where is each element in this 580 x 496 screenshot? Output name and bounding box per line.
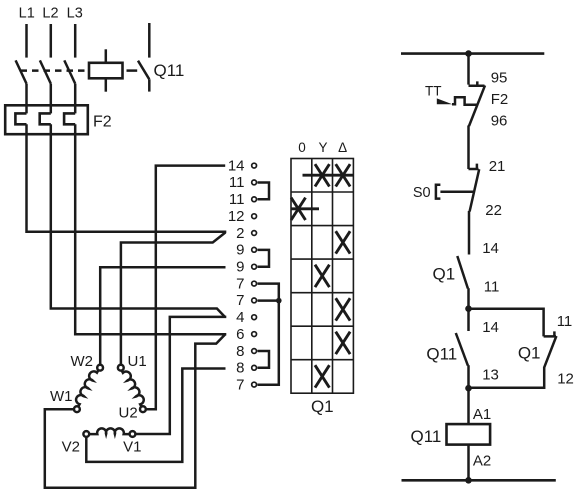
svg-text:14: 14	[482, 319, 499, 336]
svg-text:V1: V1	[123, 439, 141, 456]
terminal 7 circle	[252, 281, 257, 286]
contactor Q11 auxiliary pole contact blade	[138, 61, 149, 80]
svg-text:95: 95	[491, 70, 508, 87]
switch table row2 strike line	[292, 207, 320, 210]
contactor Q11 auxiliary pole upper wire	[148, 23, 151, 58]
wire terminal 7 link (7a-7c)	[258, 284, 279, 385]
wire V1 to terminal 4 (flag bottom)	[136, 317, 227, 434]
terminal 11 circle	[252, 197, 257, 202]
terminal 6 circle	[252, 332, 257, 337]
wire junction to coil	[467, 388, 470, 424]
wire U2 to terminal 14	[146, 166, 225, 410]
switch table grid	[291, 159, 353, 394]
contact Q1 13-14 blade	[457, 256, 468, 289]
wire L3 to terminal 6 (flag top)	[75, 124, 226, 334]
junction dot top rail	[465, 50, 472, 57]
svg-text:6: 6	[236, 326, 244, 343]
wire W1 to terminal 6 (flag bottom, around bottom)	[45, 334, 225, 487]
svg-text:4: 4	[236, 309, 244, 326]
contactor Q11 auxiliary pole lower wire	[148, 79, 151, 91]
switch table X row1 col Y	[315, 164, 329, 186]
svg-text:Y: Y	[318, 140, 327, 155]
wire W2 to terminal 9	[100, 267, 225, 364]
wire coil to bottom rail	[467, 445, 470, 481]
wire L2 supply stub	[50, 24, 53, 58]
switch table X row6 col Delta	[336, 332, 350, 354]
contactor Q11 operator box	[89, 63, 123, 79]
motor terminal W2	[97, 365, 103, 371]
svg-text:11: 11	[484, 279, 500, 296]
bracket terminals 11-11	[258, 183, 270, 200]
svg-text:9: 9	[236, 259, 244, 276]
overload relay F2 heater element L1	[15, 113, 26, 124]
svg-text:11: 11	[229, 191, 245, 208]
wire L1 phase through F2 upper	[25, 84, 28, 114]
contact Q11 13-14 blade	[456, 333, 468, 366]
contactor Q11 main contact pole 1 (L1)	[16, 60, 27, 84]
bracket terminals 9-9	[258, 250, 270, 267]
svg-text:W1: W1	[50, 388, 73, 405]
terminal 12 circle	[252, 214, 257, 219]
switch table X row2 col 0	[291, 198, 305, 220]
coil Q11 box	[447, 424, 491, 445]
terminal 9 circle	[252, 247, 257, 252]
overload relay F2 heater element L3	[64, 113, 75, 124]
contact S0 21-22 fixed tick	[469, 164, 479, 169]
svg-text:7: 7	[236, 275, 244, 292]
wire terminal 7b to link	[258, 299, 279, 302]
svg-text:12: 12	[228, 208, 245, 225]
svg-text:9: 9	[236, 242, 244, 259]
svg-text:96: 96	[491, 113, 508, 130]
svg-text:L3: L3	[67, 6, 83, 22]
svg-text:Q1: Q1	[518, 344, 541, 363]
svg-text:Q11: Q11	[426, 345, 457, 364]
motor winding U1-U2 coil	[122, 370, 144, 406]
svg-text:W2: W2	[71, 353, 94, 370]
wire branch to right contact	[469, 309, 544, 337]
wire L2 to terminal 4 (flag top)	[51, 124, 225, 317]
wire bottom supply rail	[402, 479, 556, 482]
svg-text:F2: F2	[491, 91, 509, 108]
contact Q1 11-12 fixed tick	[544, 331, 556, 336]
svg-text:S0: S0	[413, 185, 431, 201]
terminal 9 circle	[252, 264, 257, 269]
contact F2 95-96 blade	[469, 85, 485, 126]
terminal 7 circle	[252, 382, 257, 387]
svg-text:13: 13	[482, 367, 499, 384]
junction dot on 7 link	[276, 298, 282, 304]
terminal 4 circle	[252, 315, 257, 320]
switch table row1 strike line	[303, 174, 354, 177]
wire V2 to terminal 8	[86, 369, 225, 462]
thermal trip linkage square bump	[452, 97, 478, 105]
pushbutton S0 actuator link	[440, 190, 474, 193]
svg-text:TT: TT	[425, 83, 442, 98]
svg-text:F2: F2	[93, 114, 112, 131]
mechanical link dashed line (left of coil box)	[21, 69, 89, 72]
contactor Q11 main contact pole 2 (L2)	[40, 60, 51, 84]
svg-text:22: 22	[485, 202, 502, 219]
wire L1 supply stub	[25, 24, 28, 58]
contactor Q11 main contact pole 3 (L3)	[64, 60, 75, 84]
motor winding V2-V1 coil	[90, 428, 130, 434]
motor terminal W1	[74, 406, 80, 412]
svg-text:L1: L1	[19, 6, 35, 22]
svg-text:11: 11	[557, 313, 573, 330]
svg-text:11: 11	[229, 174, 245, 191]
motor terminal U2	[140, 406, 146, 412]
svg-text:14: 14	[228, 157, 245, 174]
svg-text:8: 8	[236, 360, 244, 377]
motor terminal U1	[118, 365, 124, 371]
motor terminal V2	[83, 431, 89, 437]
svg-text:A1: A1	[473, 406, 491, 423]
wire L2 phase through F2 upper	[50, 84, 53, 114]
terminal 8 circle	[252, 365, 257, 370]
wire F2 contact to S0	[467, 126, 470, 170]
svg-text:21: 21	[489, 158, 506, 175]
junction dot coil branch	[465, 385, 472, 392]
wire L3 phase through F2 upper	[74, 84, 77, 114]
svg-text:V2: V2	[62, 439, 80, 456]
svg-text:7: 7	[236, 292, 244, 309]
switch table X row7 col Y	[315, 365, 329, 387]
svg-text:Q11: Q11	[154, 61, 185, 80]
wire S0 to Q1 contact	[468, 211, 471, 255]
svg-text:7: 7	[236, 376, 244, 393]
svg-text:14: 14	[482, 240, 499, 257]
contact Q1 11-12 blade	[544, 336, 556, 367]
svg-text:U1: U1	[128, 353, 147, 370]
bracket terminals 8-8	[258, 351, 270, 368]
wire rail to F2 contact	[467, 54, 470, 85]
switch table X row4 col Y	[315, 265, 329, 287]
contact S0 21-22 blade	[470, 169, 480, 211]
wire top supply rail	[401, 52, 544, 55]
terminal 8 circle	[252, 349, 257, 354]
junction dot branch	[465, 305, 472, 312]
switch table X row1 col Delta	[336, 164, 350, 186]
svg-text:2: 2	[236, 225, 244, 242]
wire junction to Q11 contact	[467, 309, 470, 331]
terminal 11 circle	[252, 180, 257, 185]
contactor Q11 operator plunger lower	[105, 78, 108, 91]
svg-text:U2: U2	[119, 405, 138, 422]
motor winding W2-W1 coil	[76, 370, 98, 406]
svg-text:Q1: Q1	[311, 397, 334, 416]
wire Q1 to junction	[467, 288, 470, 309]
svg-text:Q1: Q1	[433, 264, 456, 283]
terminal 14 circle	[252, 163, 257, 168]
terminal 7 circle	[252, 298, 257, 303]
svg-text:L2: L2	[42, 6, 58, 22]
terminal 2 circle	[252, 231, 257, 236]
junction dot bottom rail	[465, 477, 472, 484]
svg-text:Q11: Q11	[411, 427, 442, 446]
svg-text:0: 0	[298, 140, 306, 155]
overload relay F2 box	[5, 105, 88, 134]
svg-text:A2: A2	[473, 453, 491, 470]
wire L1 to terminal 2 (flag top)	[27, 124, 227, 231]
contactor Q11 operator plunger upper	[105, 49, 108, 63]
wire U1 junction to terminal 2 (flag bottom)	[121, 232, 226, 364]
overload relay F2 heater element L2	[40, 113, 51, 124]
wire Q11 contact to coil junction	[467, 365, 470, 388]
svg-text:12: 12	[557, 371, 574, 388]
thermal trip actuator triangle	[437, 98, 453, 104]
pushbutton S0 actuator bracket	[436, 185, 441, 199]
mechanical link dashed line (right of coil box)	[127, 69, 138, 72]
switch table X row3 col Delta	[336, 231, 350, 253]
svg-text:8: 8	[236, 343, 244, 360]
switch table X row5 col Delta	[336, 298, 350, 320]
svg-text:Δ: Δ	[338, 140, 347, 155]
wire right branch return	[469, 367, 545, 388]
motor terminal V1	[130, 431, 136, 437]
contact F2 95-96 fixed tick	[469, 81, 485, 85]
wire L3 supply stub	[74, 24, 77, 58]
